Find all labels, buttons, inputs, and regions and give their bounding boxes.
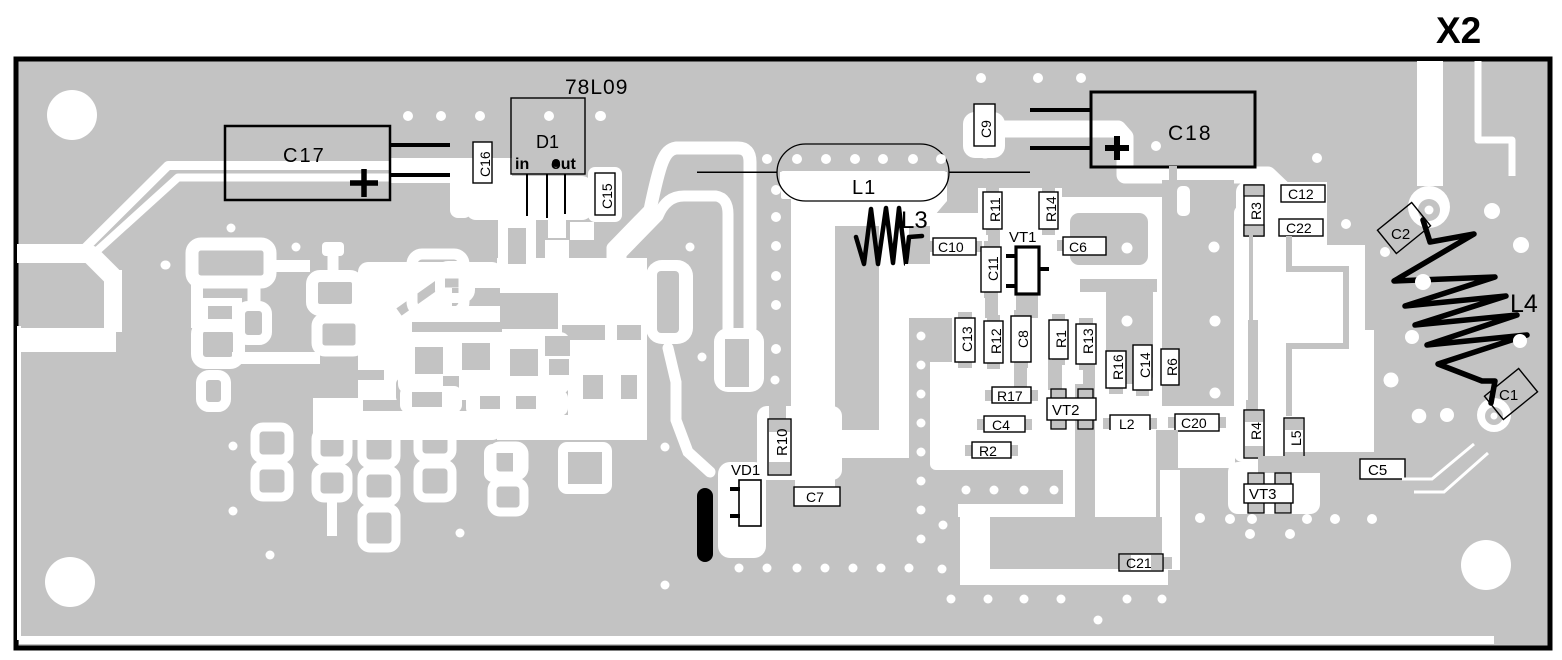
board bottom white margin xyxy=(19,636,1494,644)
resistor R6 xyxy=(1161,343,1180,391)
svg-text:C11: C11 xyxy=(985,256,1001,281)
svg-text:R13: R13 xyxy=(1080,328,1096,354)
capacitor C20 xyxy=(1168,414,1226,431)
wire: ring under C16 xyxy=(412,254,464,312)
capacitor C10 xyxy=(927,238,982,255)
wire: gray band in pool xyxy=(412,322,502,332)
wire: upper input trace diagonal to C16 xyxy=(83,166,462,251)
svg-text:L2: L2 xyxy=(1119,416,1135,432)
wire: connector D to E xyxy=(329,306,339,322)
wire: white trace from C9 to under C18 xyxy=(985,129,1290,210)
wire: outer elbow from maze to pad column xyxy=(613,148,750,328)
svg-text:C4: C4 xyxy=(992,417,1010,433)
svg-text:C18: C18 xyxy=(1168,122,1213,145)
svg-text:R16: R16 xyxy=(1110,354,1126,380)
via dots right side xyxy=(1195,203,1529,539)
wire: bend down to ground band xyxy=(91,255,112,276)
white pool around R10 xyxy=(757,406,842,480)
pad: square pad left mid xyxy=(198,298,242,332)
wire: gray bridge through white band xyxy=(1169,166,1177,184)
capacitor C6 xyxy=(1057,237,1112,255)
capacitor C13 xyxy=(955,312,975,368)
via dots row in L1 xyxy=(762,154,946,164)
pad: chain 5 xyxy=(492,446,524,512)
svg-text:R1: R1 xyxy=(1053,330,1069,348)
svg-text:C1: C1 xyxy=(1499,387,1518,404)
wire: chain2 tail xyxy=(327,498,337,536)
wire: connector ring A to ring B xyxy=(191,280,203,328)
wire: C15 feed into maze xyxy=(548,214,566,238)
voltage regulator D1 78L09 xyxy=(511,76,628,218)
white pool around VD1 xyxy=(718,462,766,558)
svg-text:C7: C7 xyxy=(806,489,824,505)
svg-text:R2: R2 xyxy=(979,443,997,459)
capacitor C17 xyxy=(225,126,450,200)
transistor VT1 xyxy=(1006,229,1049,294)
svg-text:C12: C12 xyxy=(1288,186,1314,202)
svg-text:C6: C6 xyxy=(1069,239,1087,255)
C17 lead bottom xyxy=(390,173,450,177)
white pool right of center maze xyxy=(358,262,502,440)
capacitor C9 xyxy=(974,104,995,146)
via dots near C18 xyxy=(976,73,1351,229)
svg-text:C2: C2 xyxy=(1391,226,1410,243)
svg-text:X2: X2 xyxy=(1436,10,1481,51)
pad: gray square right pool xyxy=(454,340,502,367)
via dots column left of L3 xyxy=(771,185,781,354)
resistor R14 xyxy=(1039,186,1059,235)
wire: white trace from maze down to VD1 xyxy=(668,348,710,472)
wire: band lower right xyxy=(466,390,568,416)
capacitor C18 xyxy=(1030,92,1255,167)
capacitor C2 xyxy=(1377,202,1430,253)
wire: stub right of ring A xyxy=(268,260,310,272)
wire: second ring loop xyxy=(197,325,239,363)
wire: top-left ring loop xyxy=(192,244,270,282)
diode VD1 body (black bar) xyxy=(697,488,713,562)
mounting hole bottom-right xyxy=(1461,540,1511,590)
via dots on islands xyxy=(1122,242,1221,399)
white band from top border xyxy=(1417,61,1443,186)
svg-text:R10: R10 xyxy=(774,428,791,456)
pad: gray blob xyxy=(396,378,434,403)
capacitor C4 xyxy=(977,416,1032,433)
pad: chain 2 xyxy=(316,431,348,498)
D1 pin 1 wire xyxy=(526,174,528,218)
capacitor C14 xyxy=(1133,339,1153,396)
wire: white band rows (dense area) xyxy=(398,332,570,394)
wire: T ring center top xyxy=(312,276,358,310)
capacitor C15 xyxy=(588,167,622,222)
wire: D1 pin traces into maze xyxy=(498,216,536,264)
pad: ring pad lower left xyxy=(201,375,226,407)
left ground band xyxy=(19,328,116,352)
svg-text:78L09: 78L09 xyxy=(565,76,628,99)
resistor R3 xyxy=(1244,185,1264,236)
svg-text:R14: R14 xyxy=(1043,196,1059,222)
wire: gray connector VT1 down xyxy=(1016,294,1038,318)
resistor R12 xyxy=(984,315,1004,369)
pad: ring pad under D1 xyxy=(440,266,470,298)
capacitor C8 xyxy=(1011,310,1031,368)
pad: chain 4 xyxy=(418,424,452,498)
wire: gray trace to C21 xyxy=(1075,430,1095,532)
gray island right of C6 xyxy=(1070,213,1148,265)
svg-text:R12: R12 xyxy=(988,328,1004,354)
via blob under C2 xyxy=(1408,186,1450,228)
svg-text:C10: C10 xyxy=(938,239,964,255)
capacitor C11 xyxy=(981,241,1001,298)
svg-text:L5: L5 xyxy=(1288,430,1304,446)
svg-text:R6: R6 xyxy=(1164,358,1180,376)
wire: gray connector C8 to R17 xyxy=(1014,366,1027,388)
transistor VT3 xyxy=(1244,473,1293,513)
diode VD1 xyxy=(730,462,761,526)
svg-text:C5: C5 xyxy=(1368,462,1387,479)
svg-text:C20: C20 xyxy=(1181,415,1207,431)
pad: chain 3 (tall) xyxy=(362,432,396,548)
pad: tall stadium pad xyxy=(646,260,693,344)
wire: gray connector R11 to C11 xyxy=(988,230,1000,247)
wire: gray connector C11 to R12 xyxy=(985,296,998,318)
wire: stub from ring down xyxy=(248,284,261,306)
wire: thin line through L1 right xyxy=(949,172,1030,174)
inductor L1 (oscillator coil outline) xyxy=(777,144,949,201)
white pool right-middle xyxy=(1266,245,1374,462)
resistor R11 xyxy=(983,186,1003,235)
board left white margin xyxy=(17,326,21,640)
svg-text:C21: C21 xyxy=(1126,555,1152,571)
mounting hole bottom-left xyxy=(45,557,95,607)
pad: chain 1 xyxy=(255,427,289,497)
svg-text:D1: D1 xyxy=(536,132,559,152)
wire: gray trace R3 to R4 xyxy=(1249,230,1253,412)
resistor R16 xyxy=(1106,345,1126,394)
mounting hole top-left xyxy=(47,90,97,140)
svg-text:C8: C8 xyxy=(1015,330,1031,348)
pad: ring pad below stub xyxy=(240,306,267,340)
capacitor C5 xyxy=(1360,459,1405,479)
C18 lead top xyxy=(1030,108,1091,112)
inductor L2 xyxy=(1103,415,1157,432)
svg-text:C15: C15 xyxy=(599,183,615,209)
wire: ring E center xyxy=(317,318,361,351)
wire: gray band small xyxy=(358,370,384,380)
wire: white trace joint under C16 to D1 pins xyxy=(390,158,512,183)
resistor R10 xyxy=(768,406,791,475)
pad: large pad under elbows xyxy=(714,328,764,392)
capacitor C16 xyxy=(473,142,493,183)
white pool middle maze xyxy=(497,258,647,440)
wire: vertical trace to ground band xyxy=(104,270,122,332)
wire: gray diagonal inside pool xyxy=(399,283,472,312)
svg-text:L4: L4 xyxy=(1510,290,1538,318)
white half of L1 interior xyxy=(781,171,946,199)
wire: thick input band from left edge xyxy=(17,244,92,263)
white pool around VT3 xyxy=(1228,462,1320,514)
svg-text:VT3: VT3 xyxy=(1249,486,1277,503)
inductor L4 coil xyxy=(1394,220,1527,403)
wire: lower input trace diagonal xyxy=(88,178,455,260)
wire: gray feed to R4 xyxy=(1248,320,1258,408)
pad: small top pad xyxy=(322,242,344,256)
svg-text:R17: R17 xyxy=(997,388,1023,404)
tall gray island left of R3 column xyxy=(1162,180,1234,406)
capacitor C7 xyxy=(788,487,846,506)
resistor R13 xyxy=(1076,318,1096,370)
svg-text:C22: C22 xyxy=(1286,220,1312,236)
inductor L3 coil xyxy=(856,208,922,264)
via dots in maze region xyxy=(161,111,695,560)
svg-text:R3: R3 xyxy=(1248,202,1264,220)
wire: gray descender VT2 to C21 trace xyxy=(1075,384,1095,432)
wire: horizontal trace to center xyxy=(232,352,320,364)
capacitor C21 xyxy=(1100,554,1172,571)
via dots top strip xyxy=(403,111,606,121)
wire: thin line through L1 left xyxy=(697,172,777,174)
gray island below (between R13 and C14) xyxy=(1080,279,1157,292)
pad: gray pads in middle pool xyxy=(500,293,558,329)
wire: white pool lower-left extension xyxy=(313,398,361,440)
capacitor C12 xyxy=(1281,185,1325,202)
wire: gray band C5 trace xyxy=(1258,456,1362,473)
resistor R17 xyxy=(985,387,1038,404)
wire: white elbow top right xyxy=(1478,61,1512,176)
capacitor C1 xyxy=(1484,368,1537,419)
svg-text:C13: C13 xyxy=(959,326,975,352)
wire: band below xyxy=(400,386,462,413)
transistor VT2 xyxy=(1047,389,1096,429)
white channel around C21 trace xyxy=(958,504,1074,517)
capacitor C22 xyxy=(1279,219,1323,236)
pad: pads mid-lower xyxy=(484,444,522,482)
C18 lead bottom xyxy=(1030,146,1091,150)
svg-text:VD1: VD1 xyxy=(731,462,760,479)
D1 pin 3 wire xyxy=(564,174,566,218)
svg-text:C14: C14 xyxy=(1137,352,1153,378)
wire: gray trace C22 to L5 (S-bend) xyxy=(1289,236,1346,416)
svg-text:L3: L3 xyxy=(901,207,928,234)
svg-text:VT2: VT2 xyxy=(1052,402,1080,419)
white pool background of component cluster xyxy=(978,188,1062,232)
wire: stub up from T ring xyxy=(328,252,339,276)
via dots bottom center xyxy=(661,332,1167,625)
gray block left edge of pool xyxy=(930,318,952,362)
white pool around C12 C22 R3 xyxy=(1268,182,1327,260)
resistor R1 xyxy=(1049,314,1069,365)
resistor R4 xyxy=(1244,400,1264,458)
svg-text:in: in xyxy=(515,156,529,173)
via pad near C1 xyxy=(1477,398,1511,432)
pad: gray pad in pool xyxy=(452,288,500,306)
wire: white clearance diagonals near via xyxy=(1402,444,1474,479)
svg-text:VT1: VT1 xyxy=(1009,229,1037,246)
svg-text:L1: L1 xyxy=(852,177,876,199)
D1 pin 2 wire xyxy=(546,174,548,218)
wire: gray band lower xyxy=(363,400,502,411)
resistor R2 xyxy=(965,442,1018,459)
C17 lead top xyxy=(390,143,450,147)
svg-text:R11: R11 xyxy=(987,197,1003,222)
svg-text:C16: C16 xyxy=(477,151,493,177)
white pool below L1 and around L3 xyxy=(780,172,953,318)
inductor L5 xyxy=(1284,418,1304,464)
wire: inner elbow xyxy=(621,196,728,330)
svg-text:C9: C9 xyxy=(978,120,994,138)
svg-text:C17: C17 xyxy=(283,145,326,167)
wire: gray connector VT2 up xyxy=(1048,360,1062,390)
svg-text:R4: R4 xyxy=(1248,422,1264,440)
